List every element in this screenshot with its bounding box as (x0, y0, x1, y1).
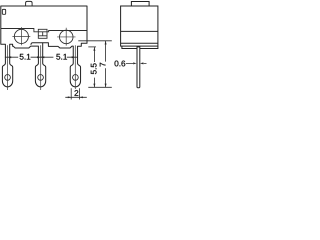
side view: body outline (121, 6, 158, 46)
label 5.1 (right) (56, 54, 67, 60)
label 5.1 (left) (20, 54, 31, 60)
label 5.5 (rotated) (91, 63, 97, 74)
front view: small rectangular detail at top-left (2, 9, 5, 14)
side view: lower parting line (121, 42, 158, 44)
front view: mounting hole circle 2 (60, 30, 74, 44)
front view: internal parting line with steps (1, 29, 88, 41)
arrowheads of 5.5 and 7 dimension lines (93, 41, 106, 87)
background (0, 0, 160, 103)
side view: upper parting line (121, 30, 158, 32)
dimension line 7 (105, 41, 107, 87)
front view: bottom step line near terminal T2 (31, 43, 43, 45)
center lines: hole crosshairs and terminal centerlines (8, 27, 76, 90)
dimension 2: extension lines, dimension line, arrowheads (65, 88, 87, 99)
front view: plunger button (26, 1, 32, 6)
label 0.6 (115, 61, 126, 67)
front view: switch body outline with terminals T1 T2 T3 (1, 6, 87, 87)
extension lines for 5.5 and 7 dimensions (88, 41, 112, 88)
label 2 (75, 90, 79, 96)
label 7 (rotated) (100, 63, 106, 67)
dimension line 5.5 (93, 47, 95, 87)
side view: bottom boss slab (122, 46, 158, 48)
side view: plunger button cap (131, 2, 149, 7)
dimension 5.1 (T1-T2): lines and arrowheads (5, 56, 78, 58)
dimension 0.6: leader lines and arrowheads (126, 62, 147, 64)
dimension 5.1 (T2-T3): lines and arrowheads (41, 56, 78, 58)
front view: center contact window (38, 29, 47, 38)
front view: mounting hole circle 1 (14, 29, 28, 43)
terminal lug holes T1 T2 T3 (5, 75, 11, 81)
side view: terminal (0.6 thick) (137, 47, 140, 88)
